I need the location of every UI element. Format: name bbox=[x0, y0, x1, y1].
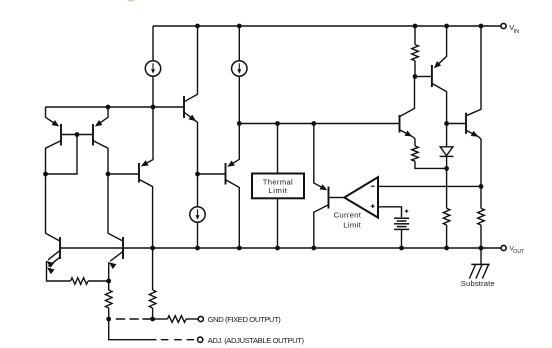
transistor Q2 (right PNP of top mirror) bbox=[93, 107, 108, 174]
wire: base down and left to node at (45,174) bbox=[46, 135, 78, 175]
wire: I3 to bottom rail bbox=[197, 222, 199, 248]
resistor R1 (top right, x=415) bbox=[412, 26, 419, 77]
wire: R6 to node bbox=[88, 280, 109, 282]
node: top rail junction at x=239 bbox=[237, 24, 242, 29]
node: bottom rail junction at x=239.3 bbox=[237, 246, 242, 251]
node: bottom rail junction at x=481 bbox=[479, 246, 484, 251]
resistor R8 (x=152.6) bbox=[149, 290, 156, 319]
wire: R5 to rail bbox=[480, 225, 482, 248]
node: junction (152.6,319) bbox=[150, 317, 155, 322]
transistor Q10 (NPN output, bar x=466) bbox=[447, 26, 481, 186]
node: junction (446.6,123.5) bbox=[444, 121, 449, 126]
transistor Q11 (PNP, bar x=139) bbox=[108, 107, 153, 290]
node: junction (45,174) bbox=[43, 172, 48, 177]
terminal V_IN bbox=[501, 23, 506, 28]
node: top rail junction at x=481 bbox=[479, 24, 484, 29]
terminal GND bbox=[198, 316, 203, 321]
node: base junction bbox=[75, 132, 80, 137]
svg-text:ADJ. (ADJUSTABLE OUTPUT): ADJ. (ADJUSTABLE OUTPUT) bbox=[208, 336, 305, 345]
node: bottom rail junction at x=152.6 bbox=[150, 246, 155, 251]
resistor R7 (x=108.7) bbox=[105, 281, 112, 319]
svg-text:GND (FIXED OUTPUT): GND (FIXED OUTPUT) bbox=[208, 315, 282, 324]
node: junction (277.5,123.5) bbox=[275, 121, 280, 126]
resistor R4 (x=446.6) bbox=[443, 208, 450, 225]
diode D1 bbox=[440, 124, 454, 169]
svg-text:Substrate: Substrate bbox=[461, 279, 495, 288]
terminal ADJ bbox=[198, 337, 203, 342]
node: junction (239,123.5) bbox=[237, 121, 242, 126]
svg-text:Limit: Limit bbox=[343, 221, 361, 230]
node: junction (108.7,319) bbox=[106, 317, 111, 322]
node: bottom rail junction at x=277.5 bbox=[275, 246, 280, 251]
wire: V_IN top rail bbox=[153, 25, 501, 27]
battery V1 (bandgap reference) bbox=[394, 209, 409, 229]
wire: op-amp minus input line bbox=[378, 185, 481, 187]
svg-text:Current: Current bbox=[334, 210, 362, 219]
node: junction (108,174) bbox=[106, 172, 111, 177]
terminal V_OUT bbox=[501, 245, 506, 250]
svg-text:Limit: Limit bbox=[268, 186, 287, 195]
wire: bottom output rail bbox=[60, 247, 501, 249]
wire: ADJ dashed segment bbox=[161, 339, 194, 341]
wire: rail to current source I1 bbox=[152, 26, 154, 61]
transistor Q1 (left PNP of top mirror) bbox=[46, 107, 62, 174]
node: top rail junction at x=197 bbox=[195, 24, 200, 29]
resistor R2 (emitter resistor, x=415) bbox=[412, 146, 447, 168]
transistor Q8 (NPN, bar x=399.5) bbox=[400, 77, 416, 147]
svg-text:IN: IN bbox=[514, 29, 520, 35]
node: bottom rail junction at x=446.6 bbox=[444, 246, 449, 251]
node: bottom rail junction at x=197.5 bbox=[195, 246, 200, 251]
thermal limit block bbox=[252, 174, 304, 199]
svg-text:OUT: OUT bbox=[513, 249, 525, 255]
node: junction (313.8,123.5) bbox=[311, 121, 316, 126]
node: junction (197.5,174) bbox=[195, 172, 200, 177]
transistor Q6 (PNP, bar x=225.5) bbox=[198, 124, 240, 249]
node: junction at (153,107) bbox=[151, 105, 156, 110]
transistor Q9 (PNP, bar x=432) bbox=[415, 26, 447, 124]
node: junction (415,76.5) bbox=[413, 74, 418, 79]
wire: Q3 emitters down to R6 bbox=[47, 261, 71, 281]
current source I2 bbox=[232, 61, 247, 76]
ground: substrate symbol bbox=[469, 248, 489, 279]
wire: thermal box to bottom rail bbox=[277, 199, 279, 248]
wire: horizontal net y=124 to Q8 base bbox=[239, 123, 399, 125]
wire: Q1/Q2 common base bbox=[61, 134, 93, 136]
wire: node to current source I3 bbox=[197, 174, 199, 207]
current source I1 bbox=[145, 61, 160, 76]
transistor Q4 (PNP, bar x=123) bbox=[108, 174, 123, 269]
node: bottom rail junction at x=401.5 bbox=[399, 246, 404, 251]
node: junction at (108,107) bbox=[106, 105, 111, 110]
wire: diode node down to R4 bbox=[446, 168, 448, 208]
node: top rail junction at x=446 bbox=[444, 24, 449, 29]
node: junction (446.6,168.4) bbox=[444, 166, 449, 171]
node: bottom rail junction at x=313.8 bbox=[311, 246, 316, 251]
wire: R4 to rail bbox=[446, 225, 448, 248]
wire: battery to bottom rail bbox=[401, 229, 403, 248]
wire: base rail of input pair (y=107) bbox=[46, 106, 185, 108]
current source I3 bbox=[190, 207, 205, 222]
transistor Q5 (NPN, bar x=184) bbox=[184, 26, 198, 174]
transistor Q7 (PNP, bar x=328.5, current limit sense) bbox=[314, 124, 345, 249]
node: junction (108.7,281) bbox=[106, 279, 111, 284]
node: top rail junction at x=415 bbox=[413, 24, 418, 29]
resistor R9 (to GND terminal) bbox=[153, 316, 199, 323]
resistor R5 (x=481) bbox=[478, 208, 485, 225]
wire: down to thermal limit box bbox=[277, 124, 279, 173]
wire: dashed link between feedback nodes bbox=[116, 318, 152, 320]
resistor R6 (horizontal, y=281) bbox=[71, 278, 89, 285]
wire: rail to current source I2 bbox=[238, 26, 240, 61]
wire: Q4 emitter to node bbox=[108, 262, 110, 281]
wire: I2 down to node B bbox=[238, 76, 240, 123]
op-amp U1 (current limit comparator) bbox=[344, 177, 378, 217]
scan artifact top edge bbox=[128, 0, 135, 1]
wire: down to R5 bbox=[480, 186, 482, 208]
wire: op-amp plus input to battery bbox=[378, 207, 402, 217]
wire: ADJ line bbox=[109, 319, 157, 340]
transistor Q3 (dual-emitter, bar x=60) bbox=[46, 174, 61, 274]
wire: I1 to bias node bbox=[152, 76, 154, 107]
node: junction (481,186.4) bbox=[479, 184, 484, 189]
